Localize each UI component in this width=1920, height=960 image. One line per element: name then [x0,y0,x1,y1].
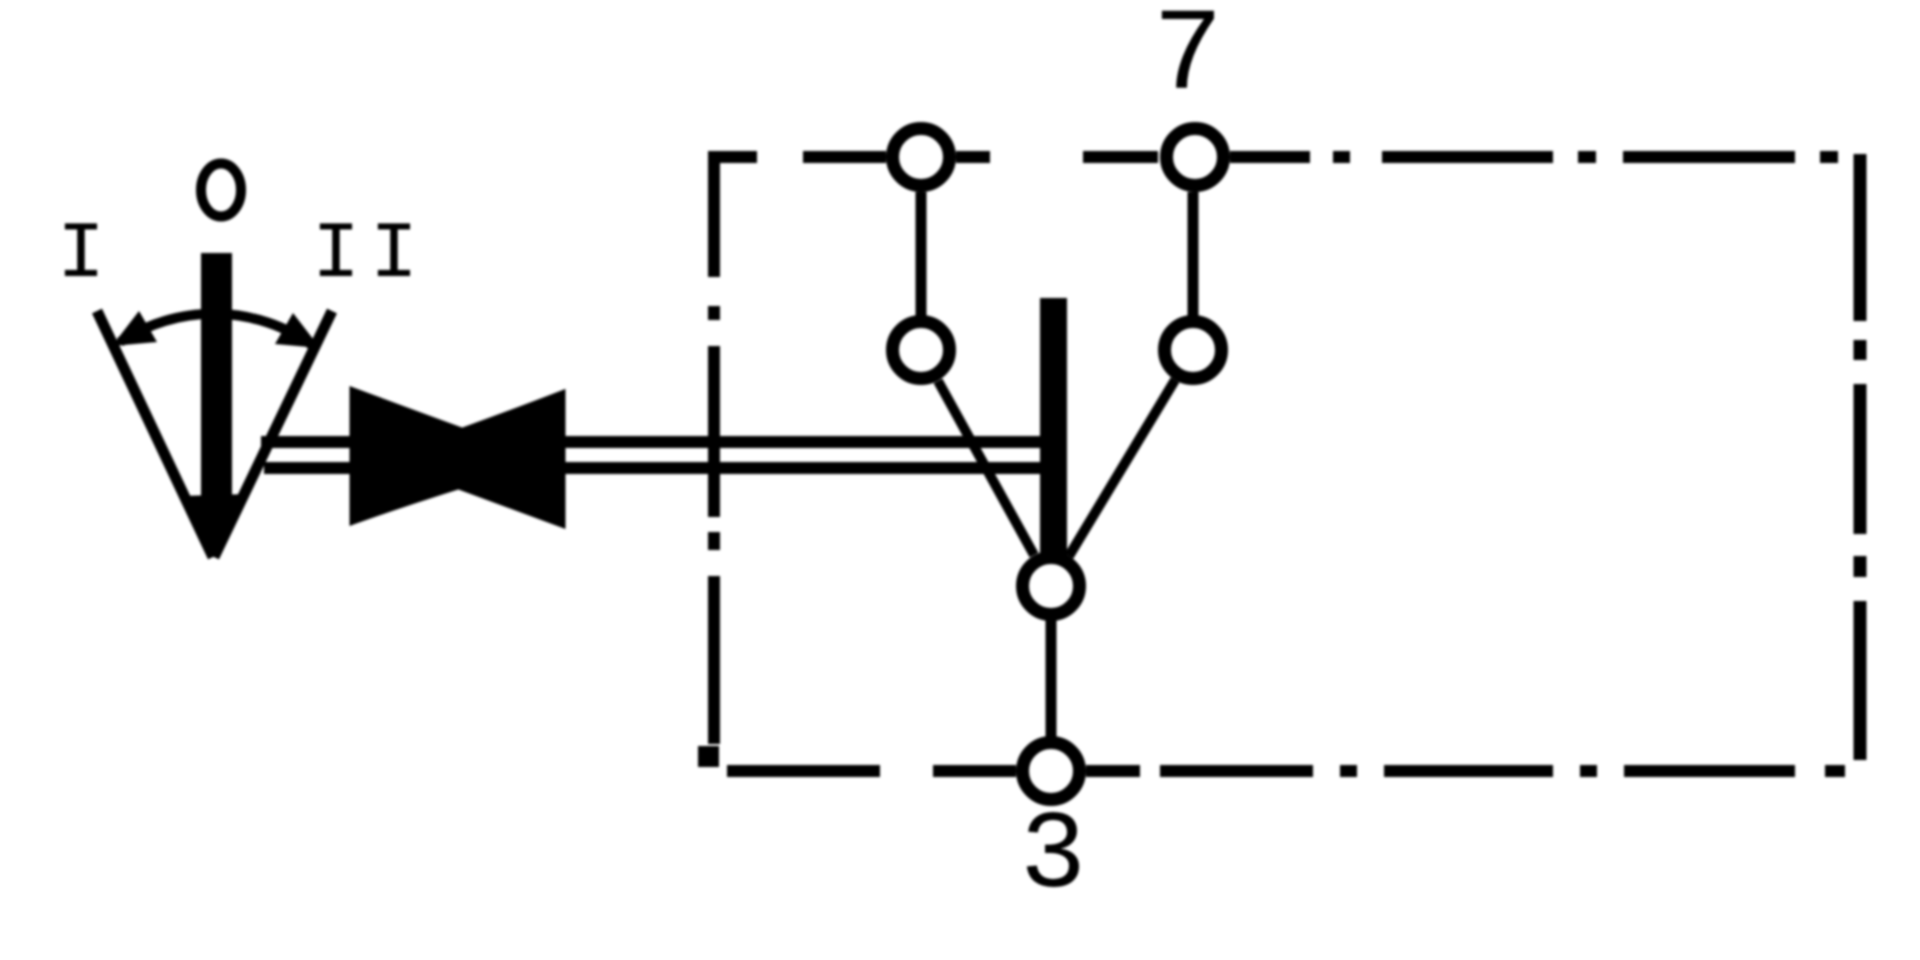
contact circle left [893,322,950,379]
arc arrowhead right [275,313,320,348]
contact circle right [1165,322,1222,379]
switch lever bar [1040,298,1067,558]
rotation arc [120,314,312,345]
actuator lever with arrow [181,253,249,557]
enclosure left border corner dot [698,746,719,767]
linkage double line lower [264,462,1040,474]
wire pivot to terminal 3 [1046,620,1057,738]
wire stub left of terminal 3 [933,765,1016,777]
mechanical coupling (detent) right arrowhead [424,394,562,524]
enclosure right border (dash-dot) [1854,154,1867,760]
wire stub right of terminal 3 [1086,765,1140,777]
wire stub right of terminal 7 [1230,151,1310,163]
enclosure bottom border (dash-dot) [727,765,1845,777]
mechanical coupling (detent) left arrowhead [353,391,500,521]
wire terminal top-left to contact left [916,192,927,316]
arc arrowhead left [112,311,157,346]
moving contact arm right [1069,380,1175,556]
wire to terminal 7 [1083,151,1158,163]
svg-text:7: 7 [1153,0,1223,124]
label 0 (position 0) [201,164,241,217]
wire stub right of terminal top-left [956,151,990,163]
terminal circle 7 [1167,129,1224,186]
linkage double line upper [261,436,1040,448]
enclosure top border (dash-dot) [708,151,1838,163]
svg-text:I: I [57,210,105,301]
moving contact arm left [938,381,1034,555]
wire terminal 7 to contact right [1188,192,1199,316]
wire to terminal top-left [803,151,886,163]
position sector V right leg [214,311,332,557]
svg-text:3: 3 [1020,795,1086,920]
terminal circle 3 [1023,743,1080,800]
terminal circle top-left [893,129,950,186]
svg-text:II: II [312,210,428,301]
position sector V left leg [97,311,213,557]
enclosure left border (dash-dot) [708,151,720,744]
pivot contact circle [1023,558,1080,615]
